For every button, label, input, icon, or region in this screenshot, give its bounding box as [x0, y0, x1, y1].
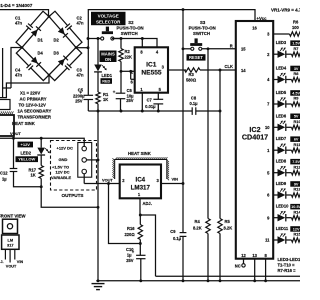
- svg-text:R14: R14: [294, 209, 301, 214]
- capacitor C12: [0, 138, 17, 181]
- node C7 ground: [157, 110, 160, 113]
- label OUTPUTS: [62, 193, 84, 198]
- svg-text:TRANSFORMER: TRANSFORMER: [18, 114, 52, 119]
- wire R1 to ground rail: [97, 104, 99, 111]
- wire AC input to bridge top: [0, 10, 49, 17]
- wire ground rail bottom: [96, 280, 300, 282]
- wire bridge bottom to transformer: [0, 75, 49, 98]
- pin 12 NC: [235, 253, 247, 268]
- svg-text:T1-T10 =: T1-T10 =: [278, 262, 296, 267]
- svg-text:LED7: LED7: [276, 136, 287, 141]
- svg-text:D1: D1: [38, 37, 44, 42]
- resistor R3: [185, 68, 201, 83]
- svg-text:C12: C12: [0, 171, 8, 176]
- label MAINS ON: [100, 51, 117, 63]
- label IC2: [242, 125, 268, 142]
- svg-text:CD4017: CD4017: [242, 133, 268, 142]
- svg-text:25V: 25V: [75, 99, 83, 104]
- node R4 ground: [207, 279, 210, 282]
- resistor R5: [218, 219, 232, 234]
- terminal strip box: [78, 143, 92, 178]
- svg-text:R4: R4: [195, 219, 201, 224]
- diode D4: [31, 51, 44, 67]
- svg-text:R13: R13: [294, 187, 301, 192]
- svg-text:D1-D4 = 1N4007: D1-D4 = 1N4007: [0, 3, 33, 8]
- svg-text:R15: R15: [294, 232, 301, 237]
- wire +12V rail (bridge+ up and across top to IC2 Vcc): [88, 10, 255, 96]
- resistor R2: [119, 49, 132, 62]
- capacitor C10: [126, 244, 146, 264]
- label R9: [294, 96, 300, 101]
- node C6 ground: [120, 110, 123, 113]
- svg-text:LED4: LED4: [276, 66, 287, 71]
- label S2: [117, 20, 144, 36]
- LED LED3: [278, 47, 286, 58]
- resistor R12: [286, 171, 301, 175]
- svg-text:RESET: RESET: [189, 55, 203, 60]
- ground: [92, 284, 105, 290]
- resistor R1: [96, 92, 109, 104]
- node C9 ground: [182, 279, 185, 282]
- resistor R9: [286, 102, 301, 106]
- node R16/C10 junction: [139, 242, 142, 245]
- label LED5: [276, 90, 302, 96]
- svg-text:R5: R5: [225, 219, 231, 224]
- svg-text:C7: C7: [147, 98, 153, 103]
- svg-text:10: 10: [265, 125, 270, 130]
- node GND terminal: [97, 158, 100, 161]
- svg-text:S2: S2: [128, 20, 134, 25]
- wire terminal2 gnd: [86, 159, 98, 161]
- label Vin (IC4): [172, 176, 179, 181]
- node Vin junction: [182, 182, 185, 185]
- node bridge right: [75, 46, 78, 49]
- svg-text:R1: R1: [103, 92, 109, 97]
- wire S2 to R2: [112, 39, 121, 49]
- wire bridge right vertex to +12V node: [76, 47, 88, 49]
- svg-text:LED6: LED6: [276, 113, 287, 118]
- svg-text:LED11: LED11: [276, 226, 289, 231]
- svg-text:R9: R9: [294, 96, 300, 101]
- svg-text:47n: 47n: [77, 72, 85, 77]
- svg-text:V​OUT: V​OUT: [10, 131, 21, 136]
- wire Vin rail: [182, 10, 184, 281]
- node pin8 ground: [264, 279, 267, 282]
- node ADJ junction: [139, 214, 142, 217]
- svg-text:IC4: IC4: [135, 176, 145, 183]
- pin 1 output wire: [267, 148, 277, 153]
- label Vout (left): [10, 131, 21, 136]
- svg-text:CLK: CLK: [225, 64, 233, 69]
- capacitor C2: [49, 11, 84, 47]
- svg-text:AC PRIMARY: AC PRIMARY: [20, 96, 47, 101]
- svg-text:R11: R11: [294, 142, 301, 147]
- svg-text:LED9: LED9: [276, 181, 287, 186]
- node pin2 branch: [129, 70, 132, 73]
- svg-text:PUSH-TO-ON: PUSH-TO-ON: [117, 26, 144, 31]
- diode D3: [54, 51, 69, 66]
- svg-text:SELECTOR: SELECTOR: [96, 19, 121, 24]
- wire LED2 to R17: [40, 155, 42, 166]
- svg-text:VARIABLE: VARIABLE: [51, 175, 71, 180]
- node bridge bottom: [48, 74, 51, 77]
- svg-text:R8: R8: [294, 71, 300, 76]
- svg-text:V​OUT: V​OUT: [6, 264, 17, 268]
- capacitor C1: [15, 11, 49, 47]
- resistor R17: [29, 166, 44, 179]
- regulator IC4 LM317 box: [120, 165, 161, 199]
- wire R3 to IC2 pin14: [200, 69, 236, 71]
- pin 1 label IC4: [138, 192, 141, 197]
- LED LED1: [94, 65, 107, 72]
- svg-text:1K: 1K: [103, 97, 108, 102]
- svg-text:LED2: LED2: [21, 151, 32, 156]
- svg-text:C10: C10: [126, 247, 134, 252]
- pin 1 label: [140, 87, 143, 92]
- label LED6: [276, 113, 302, 119]
- node LED2 tap: [40, 137, 43, 140]
- svg-text:580Ω: 580Ω: [186, 77, 197, 82]
- LED LED6: [278, 121, 286, 132]
- wire bridge left vertex to transformer: [11, 48, 22, 89]
- capacitor C9: [170, 229, 186, 241]
- LED LED5: [278, 97, 286, 108]
- svg-text:16: 16: [252, 25, 257, 30]
- wire pin1 to ground rail: [141, 93, 143, 111]
- svg-text:X1 = 220V: X1 = 220V: [20, 90, 40, 95]
- label R pin15: [230, 43, 233, 48]
- node CLK junction: [219, 69, 222, 72]
- LED LED8: [278, 166, 286, 177]
- wire Vcc pin16: [252, 16, 267, 31]
- resistor R13: [286, 193, 301, 197]
- pin 14 label: [241, 68, 246, 73]
- node pin13 ground: [253, 279, 256, 282]
- capacitor C6: [113, 88, 134, 103]
- svg-text:1µ: 1µ: [2, 177, 7, 182]
- svg-text:S3: S3: [200, 20, 206, 25]
- resistor R16: [125, 215, 143, 240]
- label R15: [294, 232, 302, 237]
- label R14: [294, 209, 302, 214]
- svg-text:GND: GND: [59, 157, 68, 162]
- svg-text:R2: R2: [125, 49, 131, 54]
- svg-text:SWITCH: SWITCH: [193, 31, 210, 36]
- svg-text:VR1-VR9 = 4.7K: VR1-VR9 = 4.7K: [271, 7, 300, 12]
- wire R16 bottom: [139, 240, 141, 244]
- pin 2 label IC4: [122, 178, 125, 183]
- TO-220 body: [2, 235, 19, 249]
- capacitor C4: [15, 48, 49, 81]
- pin 5 label: [159, 87, 162, 92]
- svg-text:8.2K: 8.2K: [224, 226, 233, 231]
- resistor R15: [286, 238, 301, 242]
- label LED1: [101, 73, 113, 84]
- capacitor C5: [73, 88, 93, 104]
- LED LED9: [278, 188, 286, 199]
- node pin1 ground: [141, 110, 144, 113]
- switch S2 push-to-on: [88, 27, 157, 48]
- svg-text:0.1µ: 0.1µ: [189, 101, 198, 106]
- wire pin 8 to ground: [264, 253, 267, 281]
- svg-text:D3: D3: [54, 51, 60, 56]
- label Vout (IC4): [102, 177, 113, 182]
- wire GND vertical: [97, 111, 99, 281]
- svg-text:1µ: 1µ: [127, 253, 132, 258]
- svg-text:47n: 47n: [15, 20, 23, 25]
- svg-text:22K: 22K: [125, 55, 133, 60]
- svg-text:R7: R7: [294, 46, 299, 51]
- node gnd rail: [97, 279, 100, 282]
- svg-text:R16: R16: [127, 226, 135, 231]
- svg-text:12: 12: [241, 253, 246, 258]
- wire C7 to ground rail: [157, 104, 159, 111]
- terminal +12V: [82, 146, 87, 151]
- label LED4: [276, 66, 302, 72]
- svg-text:R10: R10: [294, 119, 301, 124]
- resistor R8: [286, 77, 301, 81]
- svg-text:FRONT VIEW: FRONT VIEW: [0, 213, 26, 218]
- label FRONT VIEW: [0, 213, 26, 218]
- pin 3 label: [162, 64, 165, 69]
- wire pin5 to C7: [157, 93, 159, 100]
- label IC1: [141, 62, 161, 77]
- wire ground rail: [88, 110, 220, 112]
- svg-text:LED3-LED11 =: LED3-LED11 =: [278, 257, 301, 262]
- wire pin8 supply: [141, 39, 143, 48]
- pin 15 label: [241, 46, 246, 51]
- svg-text:1A SECONDARY: 1A SECONDARY: [18, 108, 52, 113]
- capacitor C8: [189, 96, 198, 115]
- node R5 ground: [219, 279, 222, 282]
- node Vout junction: [107, 182, 110, 185]
- svg-text:C9: C9: [170, 229, 176, 234]
- wire preset rail (ADJ bus): [156, 275, 301, 277]
- svg-text:HEAT SINK: HEAT SINK: [12, 121, 36, 126]
- label LED10: [276, 204, 302, 210]
- label VR legend: [271, 7, 305, 12]
- label LED9: [276, 181, 302, 187]
- node bridge+ junction: [87, 46, 90, 49]
- switch S3 push-to-on: [183, 38, 236, 50]
- label bottom legend: [278, 257, 307, 273]
- wire C12 bottom: [14, 172, 42, 187]
- svg-text:8.2K: 8.2K: [193, 226, 202, 231]
- LED LED2: [37, 138, 50, 155]
- svg-text:47n: 47n: [77, 20, 85, 25]
- terminal variable: [82, 169, 87, 174]
- label R13: [294, 187, 302, 192]
- svg-text:D2: D2: [54, 37, 60, 42]
- wire clk pulldown rail: [219, 70, 221, 219]
- node pin8 tap: [141, 37, 144, 40]
- LED LED11: [278, 233, 286, 244]
- svg-text:NC: NC: [235, 264, 241, 269]
- wire C10 to ground: [140, 259, 142, 281]
- label D1-D4 legend: [0, 3, 33, 8]
- label R7: [294, 46, 299, 51]
- svg-text:ON: ON: [105, 57, 111, 62]
- svg-text:14: 14: [241, 68, 246, 73]
- TO-220 legs: [5, 249, 14, 262]
- node C10 ground: [139, 279, 142, 282]
- svg-text:V​OUT: V​OUT: [102, 177, 113, 182]
- label LED2: [16, 151, 39, 163]
- node R1 ground: [97, 110, 100, 113]
- svg-text:LED1: LED1: [102, 73, 113, 78]
- svg-text:IC1: IC1: [146, 62, 157, 69]
- svg-text:NE555: NE555: [141, 70, 161, 77]
- capacitor C3: [49, 48, 84, 81]
- node C8 to CLK rail: [219, 110, 222, 113]
- svg-text:R7-R16 =: R7-R16 =: [278, 268, 297, 273]
- svg-text:317: 317: [7, 243, 14, 248]
- label GND: [59, 157, 68, 162]
- svg-text:SWITCH: SWITCH: [121, 31, 138, 36]
- pin 2 output wire: [267, 52, 277, 57]
- wire R4 to ground: [207, 234, 209, 281]
- pin 4 label: [156, 49, 159, 54]
- pin 10 output wire: [265, 125, 277, 130]
- wire IC4 Vin: [161, 183, 183, 185]
- wire trigger to pin2/pin6: [121, 71, 135, 79]
- resistor R6: [290, 20, 302, 37]
- label LED11: [276, 226, 302, 232]
- counter IC2 CD4017 box: [236, 21, 273, 259]
- pin 8 label: [140, 49, 143, 54]
- label S3: [189, 20, 216, 36]
- pin 6 label: [131, 80, 134, 85]
- LED LED4: [278, 73, 286, 84]
- outputs dashed box: [51, 141, 97, 191]
- label HEAT SINK (left): [12, 121, 36, 126]
- svg-text:11: 11: [265, 238, 270, 243]
- LED LED10: [278, 211, 286, 222]
- pin 3 output wire: [267, 32, 289, 37]
- terminal GND: [82, 158, 87, 163]
- svg-text:47n: 47n: [15, 72, 23, 77]
- node S2 feed: [87, 37, 90, 40]
- label R10: [294, 119, 301, 124]
- label +12V DC: [57, 145, 73, 150]
- svg-text:LM317: LM317: [131, 184, 151, 191]
- svg-text:1K: 1K: [31, 173, 36, 178]
- wire terminal1 feed: [0, 138, 84, 146]
- svg-text:LED8: LED8: [276, 159, 287, 164]
- svg-text:+12V DC: +12V DC: [57, 145, 73, 150]
- TO-220 tab: [3, 219, 18, 233]
- label R8: [294, 71, 300, 76]
- svg-text:100: 100: [292, 25, 300, 30]
- pin 6 output wire: [267, 193, 277, 198]
- svg-text:TO 12V-0-12V: TO 12V-0-12V: [19, 102, 47, 107]
- label +12V box: [18, 142, 34, 148]
- node R17/C12 join: [40, 185, 43, 188]
- pin 4 output wire: [267, 77, 277, 82]
- node LED1 tap: [97, 37, 100, 40]
- svg-text:0.1µ: 0.1µ: [173, 236, 182, 241]
- resistor R7: [286, 52, 301, 56]
- node +12V top corner: [182, 8, 185, 11]
- op-amp timer IC1 NE555 box: [135, 47, 168, 92]
- wire R17 chain to gnd: [41, 179, 98, 208]
- pin 2 label: [131, 70, 134, 75]
- svg-text:0.01µ: 0.01µ: [145, 104, 156, 109]
- svg-text:+12V: +12V: [21, 142, 31, 147]
- svg-text:YELLOW: YELLOW: [18, 157, 35, 162]
- svg-text:LED10: LED10: [276, 204, 289, 209]
- svg-text:C8: C8: [191, 96, 197, 101]
- svg-text:V​IN: V​IN: [17, 260, 24, 264]
- heat sink block (left, cropped): [0, 111, 14, 136]
- label package pins: [0, 260, 23, 268]
- svg-text:V​IN: V​IN: [172, 176, 179, 181]
- resistor R10: [286, 125, 301, 129]
- svg-text:D4: D4: [38, 51, 44, 56]
- svg-text:13: 13: [252, 253, 257, 258]
- wire C6 to ground rail: [120, 99, 122, 111]
- label ADJ: [143, 201, 152, 206]
- node R17 gnd junction: [97, 206, 100, 209]
- label LED7: [276, 136, 302, 142]
- LED LED7: [278, 143, 286, 154]
- resistor R11: [286, 148, 301, 152]
- wire ADJ pin: [139, 198, 141, 215]
- label variable out: [51, 165, 71, 180]
- pin 11 output wire: [265, 238, 277, 243]
- label IC4: [131, 176, 151, 191]
- pin 9 output wire: [267, 215, 277, 220]
- svg-text:J.: J.: [0, 260, 3, 264]
- node C12 tap: [12, 137, 15, 140]
- svg-text:220Ω: 220Ω: [125, 232, 136, 237]
- svg-text:LED5: LED5: [276, 90, 287, 95]
- wire R5 to ground: [219, 234, 221, 281]
- label CLK: [225, 64, 233, 69]
- transformer X1 winding wires: [0, 48, 11, 110]
- node S3 left: [182, 47, 185, 50]
- svg-text:PUSH-TO-ON: PUSH-TO-ON: [189, 25, 216, 30]
- heat sink hatch around IC4: [112, 157, 169, 180]
- diode D2: [54, 27, 68, 42]
- pin 5 output wire: [267, 170, 277, 175]
- wire LED1 to R1: [97, 72, 99, 92]
- wire ADJ to preset rail: [140, 215, 155, 276]
- node trigger junction: [120, 70, 123, 73]
- svg-text:+: +: [113, 90, 116, 95]
- svg-text:R: R: [230, 43, 233, 48]
- svg-text:ADJ.: ADJ.: [143, 201, 152, 206]
- resistor R14: [286, 216, 301, 220]
- node bridge left: [21, 46, 24, 49]
- label X1 transformer: [18, 90, 52, 119]
- wire pin3 out: [168, 69, 186, 71]
- svg-text:R12: R12: [294, 164, 301, 169]
- wire R2 to trigger node: [120, 62, 122, 94]
- wire reset pulldown rail: [207, 49, 209, 219]
- svg-text:R17: R17: [29, 167, 37, 172]
- wire terminal3 variable: [83, 174, 85, 184]
- svg-text:LED3: LED3: [276, 40, 287, 45]
- node R2 top: [120, 37, 123, 40]
- wire LED1 anode: [97, 39, 99, 65]
- label RESET: [187, 54, 206, 60]
- svg-text:OUTPUTS: OUTPUTS: [62, 193, 84, 198]
- pin 7 output wire: [267, 102, 277, 107]
- resistor R4: [193, 219, 210, 234]
- label VOLTAGE SELECTOR: [91, 12, 126, 25]
- wire pin 13 to ground: [252, 253, 257, 281]
